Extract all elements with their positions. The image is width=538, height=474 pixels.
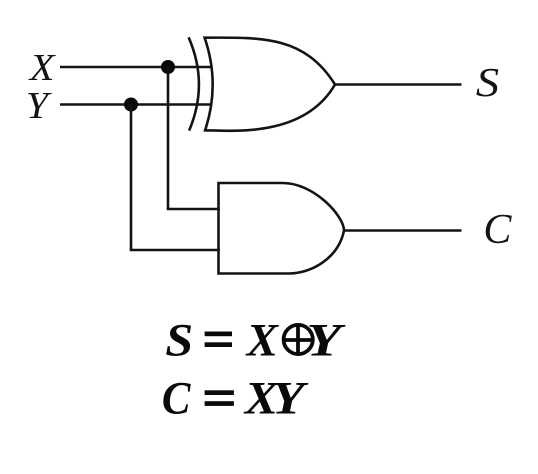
junction dot on Y wire — [124, 98, 138, 112]
svg-text:S: S — [165, 314, 193, 366]
wire: Y branch vertical — [130, 105, 133, 251]
wire: X branch vertical — [167, 67, 170, 209]
svg-text:X: X — [28, 47, 57, 89]
equation equals sign (line 2) — [205, 390, 234, 406]
wire: S output — [335, 83, 462, 86]
svg-text:Y: Y — [272, 372, 309, 424]
equation xor symbol (circled plus) — [284, 324, 313, 354]
svg-text:S: S — [476, 60, 499, 105]
wire: Y branch to AND input — [130, 249, 220, 252]
svg-text:X: X — [245, 314, 280, 366]
wire: X branch to AND input — [167, 208, 220, 211]
XOR gate input back arc — [189, 37, 199, 130]
wire: C output — [344, 229, 462, 232]
svg-text:Y: Y — [26, 85, 53, 127]
svg-text:C: C — [162, 372, 192, 424]
wire: input Y horizontal — [60, 103, 212, 106]
AND gate body — [219, 183, 345, 274]
svg-text:C: C — [483, 207, 512, 253]
equation equals sign (line 1) — [205, 332, 232, 348]
junction dot on X wire — [161, 60, 175, 74]
svg-text:Y: Y — [306, 314, 345, 366]
XOR gate body — [205, 38, 335, 131]
wire: input X horizontal — [60, 66, 212, 69]
